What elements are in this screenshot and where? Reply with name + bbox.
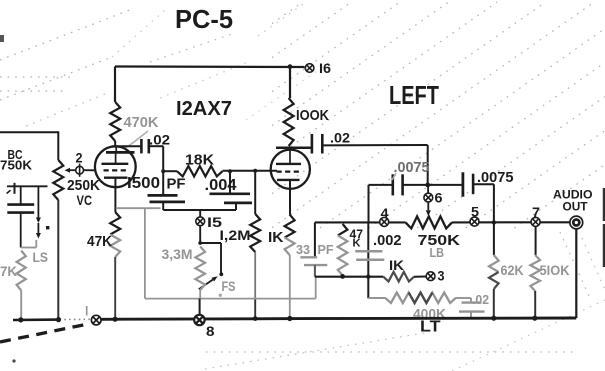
FS switch blade arrow (199, 280, 213, 290)
junction .002/LT wire (366, 275, 370, 279)
resistor 3.3M (gray) (195, 247, 205, 291)
wire 3.3M bottom gray (199, 290, 201, 299)
svg-text:3: 3 (438, 268, 445, 284)
wire cap to 18K node (149, 145, 163, 147)
svg-text:62K: 62K (501, 262, 524, 278)
svg-text:VC: VC (77, 192, 93, 208)
resistor 470K (110, 102, 120, 141)
edge speck left (0, 35, 4, 42)
svg-text:18K: 18K (185, 152, 214, 169)
svg-text:LT: LT (420, 319, 441, 336)
svg-text:2: 2 (76, 150, 83, 166)
tube V2 cathode (277, 179, 300, 181)
capacitor .02 (V2 output) (311, 134, 314, 154)
capacitor 1500 PF (148, 194, 178, 197)
wire 250K bottom to ground bus (57, 200, 59, 319)
tube V1 cathode (104, 176, 128, 178)
wire to terminal 3 (414, 276, 426, 278)
wire .002 branch vertical (367, 222, 369, 298)
junction 18K node (161, 169, 165, 173)
resistor 510K (535, 226, 537, 255)
wire box right edge down to volume pot (57, 131, 59, 160)
wire 7K to bus (gray) (20, 291, 22, 320)
tick above bus terminal (86, 306, 88, 316)
resistor 47K (V1 cathode) (110, 212, 120, 235)
svg-text:3,3M: 3,3M (162, 247, 193, 262)
svg-text:AUDIO: AUDIO (553, 190, 593, 202)
junction dot 250K/bus (56, 317, 61, 322)
svg-text:47K: 47K (87, 233, 112, 250)
terminal 6 (424, 193, 433, 202)
wire 400K to .02 (456, 297, 471, 299)
capacitor .004 (210, 192, 251, 195)
FS switch contact (219, 272, 223, 276)
svg-text:LS: LS (33, 249, 49, 265)
svg-text:PF: PF (318, 242, 334, 257)
wire 1K to bus (gray) (289, 255, 291, 318)
svg-text:IK: IK (268, 229, 284, 246)
resistor 47K (tone, gray) (338, 224, 348, 235)
resistor 1K (V2 cathode) (285, 215, 295, 238)
terminal 5 (470, 217, 479, 226)
polarity dot (46, 226, 49, 229)
jack AUDIO OUT (570, 216, 583, 229)
bus terminal (91, 315, 101, 325)
potentiometer 750K LB (406, 216, 453, 228)
junction dot 62K (492, 220, 496, 224)
resistor 62K (493, 222, 495, 255)
tube V1 cathode lead (114, 178, 116, 212)
wire input stub (7, 185, 48, 187)
svg-text:PF: PF (167, 176, 186, 193)
wire main output line left (315, 221, 406, 223)
resistor 100K (V2 plate) (289, 67, 291, 98)
tube V1 plate bar (102, 163, 129, 165)
svg-text:750K: 750K (0, 159, 32, 173)
terminal 16 (305, 64, 314, 73)
svg-text:.02: .02 (330, 130, 350, 146)
terminal 15 (196, 217, 205, 226)
svg-text:I,2M: I,2M (220, 227, 251, 243)
svg-text:7K: 7K (0, 263, 17, 279)
svg-text:33: 33 (296, 242, 310, 257)
terminal 7 (531, 217, 540, 226)
wire between caps (403, 184, 463, 186)
speck bottom-left (12, 359, 15, 362)
tube V2 plate lead (289, 148, 291, 164)
wire gray LT return (145, 298, 316, 300)
junction dot frame (425, 183, 430, 188)
capacitor .002 (gray plates) (355, 250, 382, 253)
leader .0075 (392, 173, 396, 180)
svg-text:FS: FS (222, 279, 236, 294)
wire 1.2M bottom (254, 252, 256, 299)
resistor 1K (LT) (383, 272, 414, 282)
resistor 18K (177, 166, 223, 176)
svg-text:.02: .02 (472, 292, 489, 307)
svg-text:K: K (353, 238, 361, 250)
junction dot 510K/bus (532, 316, 537, 321)
svg-text:.004: .004 (205, 177, 237, 194)
junction 47K bottom (340, 274, 345, 279)
label I (input tick) (14, 183, 16, 194)
resistor 7K (gray) (17, 251, 26, 291)
svg-text:IOOK: IOOK (296, 107, 329, 124)
svg-text:I6: I6 (319, 60, 331, 76)
capacitor 33 PF branch (314, 222, 316, 256)
gray dot below contact (219, 294, 222, 297)
wire rail left corner down (114, 67, 116, 103)
svg-text:.0075: .0075 (394, 160, 430, 176)
wire 47K to bus (114, 257, 116, 319)
wire LT node (315, 276, 384, 278)
dashed ground lead-in (0, 324, 89, 342)
junction dot 62K/bus (491, 316, 496, 321)
wire main line mid (452, 221, 570, 223)
wire gray stub to 7K (21, 247, 37, 249)
terminal 4 (380, 217, 389, 226)
wire cap frame left (369, 184, 393, 186)
wire jack ground riser (575, 229, 577, 318)
potentiometer VC 250K (53, 160, 63, 200)
junction dot 47K/bus (113, 317, 118, 322)
wire V2 plate node (276, 146, 312, 149)
terminal 8 (194, 315, 204, 325)
ground bus (13, 318, 60, 321)
wire cap top lead (20, 186, 22, 204)
wire FS contact drop (220, 243, 222, 273)
capacitor .02 coupling (V1 plate) (140, 139, 143, 153)
right edge bar (603, 188, 605, 221)
wire 33PF bottom (314, 265, 316, 277)
wire drop to cap frame (427, 145, 429, 185)
wire terminal 15 down (199, 226, 201, 243)
tube V1 plate lead (115, 146, 117, 152)
wire cap bottoms (163, 209, 236, 211)
capacitor LS coupling (plates) (7, 203, 34, 206)
svg-text:LEFT: LEFT (389, 80, 439, 110)
svg-text:PC-5: PC-5 (175, 4, 233, 34)
terminal 8 drop (199, 299, 201, 316)
svg-text:.002: .002 (373, 232, 402, 249)
tube V2 grid (dashed) (277, 171, 301, 173)
wire 470K bottom lead (114, 141, 116, 146)
terminal 15 stub (199, 210, 201, 217)
svg-text:.02: .02 (149, 132, 170, 148)
svg-text:8: 8 (206, 324, 215, 339)
wire .02 to tone network (322, 144, 427, 146)
wire 400K corner (368, 297, 385, 299)
junction dot rail/100K (288, 64, 293, 69)
terminal 3 (426, 272, 435, 281)
wire cap2 right (473, 183, 494, 185)
capacitor .0075 second (461, 172, 464, 196)
svg-text:7: 7 (532, 204, 540, 220)
leader gray 470K (124, 131, 148, 149)
wire node down (162, 146, 164, 171)
tube V1 envelope circle (95, 146, 136, 187)
svg-text:470K: 470K (124, 114, 159, 131)
svg-text:IK: IK (389, 257, 404, 273)
svg-text:6: 6 (435, 190, 443, 206)
wire to 18K (163, 170, 177, 172)
wire 33PF gray continuation (315, 277, 317, 299)
wire down to main line (493, 184, 495, 222)
capacitor .0075 first (391, 174, 394, 195)
electrolytic arrow marks (36, 218, 41, 224)
capacitor .02 LT (gray) (470, 298, 472, 303)
svg-text:4: 4 (381, 205, 389, 221)
junction dot 1K/bus (287, 316, 292, 321)
tube V2 plate bar (276, 163, 301, 165)
svg-text:I500: I500 (127, 175, 160, 192)
wire B+ top rail (115, 65, 305, 68)
wire frame-left down to main line (368, 185, 370, 223)
svg-text:5IOK: 5IOK (540, 262, 570, 278)
tube V1 grid (dashed) (104, 169, 129, 171)
tube V2 cathode lead (289, 180, 291, 215)
wire cap bottom lead (20, 213, 22, 248)
terminal 2 connector (76, 164, 84, 177)
tube V1 plate top bar (106, 151, 135, 154)
wire terminal2 to tube V1 grid (84, 169, 96, 171)
svg-text:I2AX7: I2AX7 (176, 97, 232, 120)
wiper arrow of 250K pot (70, 169, 76, 171)
junction dot 7K/bus (18, 317, 23, 322)
svg-text:5: 5 (471, 204, 479, 220)
svg-text:OUT: OUT (563, 202, 588, 214)
tube V2 envelope circle (271, 150, 310, 189)
junction dot 1.2M/bus (253, 316, 258, 321)
wiper arrow 750K (427, 202, 429, 210)
wire gray tap at cathode (116, 207, 161, 209)
capacitor 33PF (gray plates) (300, 256, 317, 258)
wire plate node to coupling cap (112, 145, 141, 147)
wire gray drop (144, 208, 146, 298)
terminal 6 stub (427, 185, 429, 193)
wire box top edge (left channel cut-off box) (0, 131, 58, 133)
svg-text:LB: LB (430, 245, 445, 260)
wire jog right (200, 242, 221, 244)
resistor 400K (gray) (385, 293, 456, 303)
resistor 1.2M (254, 171, 256, 214)
wire 18K to V2 grid (223, 170, 278, 172)
